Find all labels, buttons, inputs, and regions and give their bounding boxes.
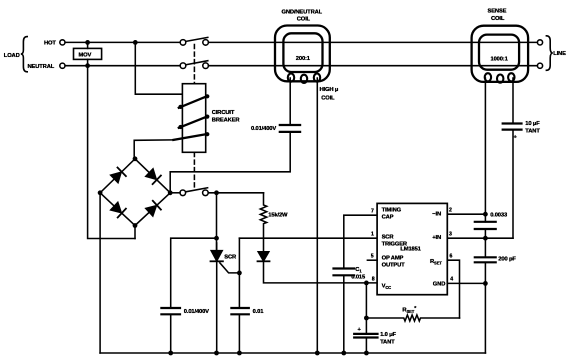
wire NEUTRAL down to bridge bottom — [88, 66, 135, 239]
svg-text:MOV: MOV — [79, 52, 92, 58]
transformer T2 outer core — [472, 26, 528, 82]
svg-text:TANT: TANT — [525, 128, 540, 134]
svg-text:TIMING: TIMING — [382, 207, 402, 213]
capacitor 0.01/400V (coil) plates — [280, 125, 300, 132]
svg-text:1: 1 — [371, 232, 374, 238]
svg-text:SENSE: SENSE — [488, 9, 507, 15]
pin 4 wire — [447, 282, 485, 284]
wire HOT line right segment — [209, 41, 538, 43]
capacitor 10uF TANT plates — [503, 124, 522, 130]
svg-text:2: 2 — [449, 208, 452, 214]
wire 1uF to rail — [365, 338, 367, 354]
svg-text:VCC: VCC — [382, 283, 392, 290]
bridge diode D2 (top-right) — [146, 169, 161, 184]
capacitor C1 0.015 plates — [334, 269, 355, 276]
SCR Q1 — [211, 243, 240, 353]
svg-text:−IN: −IN — [432, 211, 441, 217]
svg-text:LM1851: LM1851 — [400, 247, 421, 253]
svg-text:8: 8 — [372, 276, 375, 282]
wire SCR snubber branch — [171, 238, 217, 308]
svg-text:OUTPUT: OUTPUT — [382, 262, 406, 268]
wire 0.01 cap to rail — [238, 314, 240, 353]
wire 0.0033 to pin3 node — [484, 229, 486, 257]
wire switch to 15k resistor — [208, 192, 263, 194]
wire coil1 secondary right lead to rail — [316, 78, 318, 353]
wire SCR anode node — [216, 193, 218, 250]
bridge diode D4 (bottom-right) — [146, 201, 161, 216]
wire gate node up to trigger line — [238, 238, 240, 273]
bridge diode D3 (left-bottom) — [111, 202, 126, 217]
svg-text:1000:1: 1000:1 — [491, 57, 509, 63]
transformer T1 secondary loops — [288, 74, 320, 83]
wire 10uF down to pin3 line — [512, 130, 514, 239]
svg-text:0.015: 0.015 — [351, 275, 366, 281]
transformer T1 outer core — [275, 26, 330, 82]
wire bridge left vertex to ground rail — [99, 193, 101, 353]
bridge diode D1 (left-top) — [111, 168, 126, 183]
svg-text:200 pF: 200 pF — [498, 257, 516, 263]
dashed mechanical link (upper) — [193, 45, 195, 84]
node NEUTRAL load terminal — [60, 63, 65, 68]
wire SCR gate node down to 0.01 cap — [238, 273, 240, 308]
wire C1 to rail — [343, 275, 345, 353]
wire NEUTRAL line left segment — [65, 65, 180, 67]
wire snubber cap to rail — [170, 314, 172, 353]
right brace for LINE — [546, 36, 552, 71]
svg-text:COIL: COIL — [297, 17, 311, 23]
wire HOT down to breaker coil — [135, 42, 182, 94]
switch S3 (DC contact) — [180, 188, 208, 196]
svg-text:CIRCUIT: CIRCUIT — [212, 110, 235, 116]
wire RSET to pin 6 — [447, 260, 459, 318]
transformer T2 inner core — [479, 35, 519, 70]
svg-text:+IN: +IN — [432, 235, 441, 241]
wire bridge right vertex to switch — [170, 192, 180, 194]
svg-text:GND/NEUTRAL: GND/NEUTRAL — [282, 9, 323, 15]
svg-text:5: 5 — [371, 254, 374, 260]
svg-text:SCR: SCR — [224, 254, 237, 260]
svg-text:3: 3 — [449, 232, 452, 238]
transformer T2 secondary loops — [485, 73, 515, 82]
node LINE neutral terminal — [537, 63, 542, 68]
switch S1 (hot contact) — [180, 37, 208, 45]
svg-text:6: 6 — [450, 254, 453, 260]
pin 2 wire — [447, 213, 485, 215]
resistor 15k/2W — [260, 193, 266, 252]
capacitor 1.0uF TANT plates — [354, 334, 377, 338]
resistor RSET — [366, 315, 459, 321]
svg-text:NEUTRAL: NEUTRAL — [28, 64, 55, 70]
svg-text:0.01/400V: 0.01/400V — [184, 309, 209, 315]
svg-text:10 μF: 10 μF — [525, 121, 540, 127]
circuit breaker CB1 winding — [173, 96, 207, 140]
svg-text:0.0033: 0.0033 — [490, 213, 508, 219]
svg-text:0.01/400V: 0.01/400V — [251, 126, 276, 132]
svg-text:GND: GND — [433, 281, 445, 287]
switch S2 (neutral contact) — [180, 61, 208, 69]
svg-text:4: 4 — [450, 276, 453, 282]
wire 200pF to pin4/rail — [484, 262, 486, 353]
wire breaker coil to bridge top — [134, 140, 173, 159]
wire ground rail — [100, 352, 485, 354]
MOV varistor body — [74, 48, 102, 59]
transformer T1 inner core — [283, 33, 322, 72]
svg-text:1.0 μF: 1.0 μF — [380, 332, 396, 338]
svg-text:LOAD: LOAD — [4, 53, 20, 59]
wire bridge bottom lead — [134, 226, 136, 239]
svg-text:HIGH μ: HIGH μ — [320, 87, 339, 93]
capacitor 200pF plates — [475, 257, 496, 262]
diode D5 — [258, 252, 270, 261]
svg-text:RSET: RSET — [430, 259, 442, 266]
svg-text:COIL: COIL — [491, 16, 505, 22]
node HOT load terminal — [60, 40, 65, 45]
svg-text:15k/2W: 15k/2W — [268, 212, 288, 218]
svg-text:SCR: SCR — [382, 235, 395, 241]
wire D5 cathode to VCC line — [264, 261, 378, 283]
svg-text:LINE: LINE — [553, 51, 566, 57]
svg-text:0.01: 0.01 — [253, 309, 265, 315]
wire HOT line left segment — [65, 41, 180, 43]
wire coil2 secondary left lead — [484, 78, 486, 222]
capacitor 0.0033 plates — [475, 222, 496, 229]
wire coil2 secondary right lead — [512, 78, 514, 124]
svg-text:CAP: CAP — [382, 214, 394, 220]
MOV varistor leads — [87, 42, 89, 48]
svg-text:BREAKER: BREAKER — [212, 117, 241, 123]
svg-text:200:1: 200:1 — [296, 56, 311, 62]
wire bridge+ up to 0.01/400V cap — [170, 132, 290, 193]
svg-text:OP AMP: OP AMP — [382, 255, 404, 261]
svg-text:C1: C1 — [355, 267, 362, 274]
svg-text:HOT: HOT — [44, 41, 56, 47]
left brace for LOAD — [21, 37, 27, 72]
wire cap to coil1 secondary left lead — [289, 78, 291, 125]
wire pin7 to timing cap C1 — [344, 215, 377, 268]
svg-text:TANT: TANT — [380, 339, 395, 345]
capacitor 0.01 plates — [231, 308, 248, 314]
bridge rectifier arms — [100, 159, 170, 226]
wire SCR trigger line to pin 1 — [239, 237, 377, 239]
pin 3 wire — [447, 237, 513, 239]
svg-text:7: 7 — [371, 209, 374, 215]
pin 5 stub — [367, 259, 377, 261]
circuit breaker CB1 body — [182, 84, 205, 153]
dashed mechanical link (lower) — [193, 153, 195, 191]
wire NEUTRAL line right segment — [209, 65, 538, 67]
capacitor 0.01/400V (snubber) plates — [161, 308, 180, 314]
node LINE hot terminal — [537, 40, 542, 45]
wire VCC node down through RSET to 1uF — [365, 283, 367, 334]
svg-text:COIL: COIL — [321, 95, 335, 101]
breaker winding bumps — [178, 105, 182, 109]
op-amp U1 LM1851 body — [377, 203, 447, 294]
